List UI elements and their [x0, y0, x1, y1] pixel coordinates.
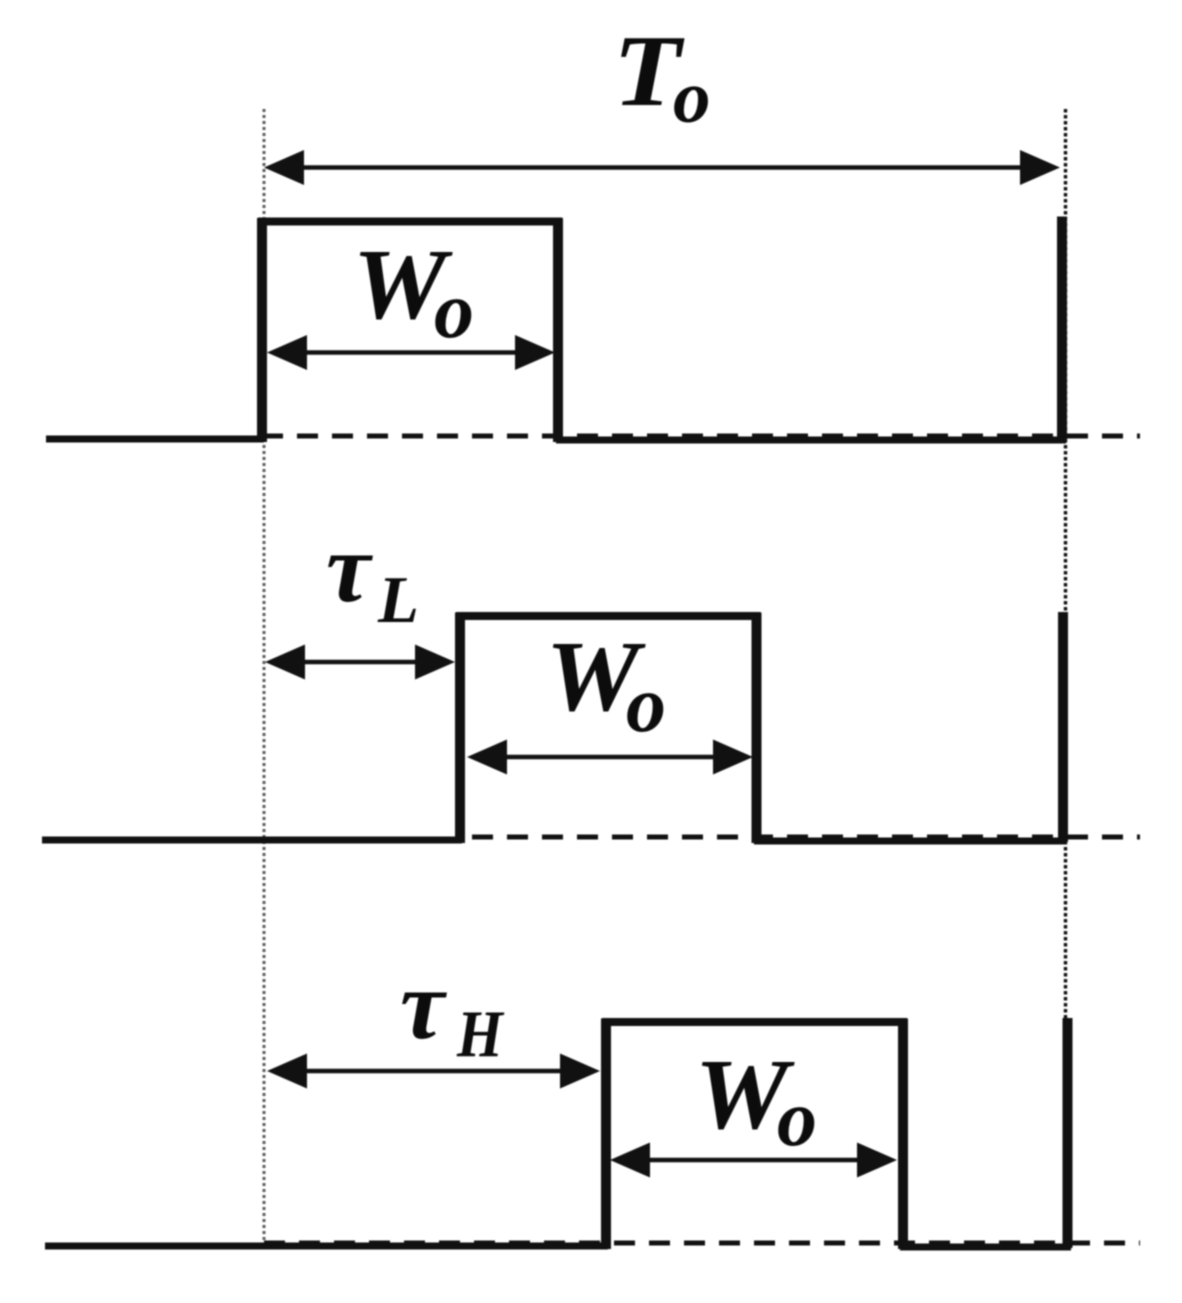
- waveform 1 next period rising edge: [1057, 217, 1067, 442]
- waveform 2 low wire after pulse: [754, 838, 1067, 845]
- dimension arrow Wo (waveform 1): [267, 335, 555, 370]
- waveform 2 next period rising edge: [1058, 612, 1068, 842]
- waveform 2 pulse outline: [456, 613, 761, 844]
- waveform 3 dashed baseline reference: [264, 1241, 1140, 1246]
- waveform 1 baseline wire (low before pulse): [46, 436, 264, 443]
- waveform 2 baseline wire (low before pulse): [42, 837, 462, 844]
- dimension arrow Wo (waveform 2): [467, 740, 753, 775]
- svg-text:o: o: [777, 1075, 817, 1163]
- svg-text:τ: τ: [326, 512, 373, 623]
- left dotted reference line at period start: [263, 109, 266, 1244]
- svg-text:L: L: [377, 563, 419, 637]
- waveform 1 pulse outline: [258, 218, 562, 442]
- right dotted reference line at period end: [1064, 109, 1067, 1248]
- waveform 3 low wire after pulse: [900, 1244, 1071, 1251]
- waveform 3 baseline wire (low before pulse): [45, 1243, 608, 1250]
- svg-text:H: H: [456, 997, 505, 1071]
- svg-text:o: o: [673, 56, 711, 139]
- waveform 3 next period rising edge: [1063, 1018, 1073, 1248]
- dimension arrow Wo (waveform 3): [610, 1143, 897, 1178]
- label Wo (waveform 3): [695, 1039, 817, 1163]
- dimension arrow To: [264, 150, 1060, 185]
- svg-text:τ: τ: [400, 949, 447, 1060]
- svg-text:o: o: [626, 661, 666, 749]
- waveform 2 dashed baseline reference: [472, 835, 1140, 840]
- label To: [613, 15, 710, 139]
- waveform 3 pulse outline: [602, 1019, 907, 1250]
- dimension arrow tau-H: [267, 1054, 600, 1089]
- label tau-H: [400, 949, 505, 1071]
- label tau-L: [326, 512, 419, 637]
- waveform 1 dashed baseline reference: [262, 434, 1140, 439]
- label Wo (waveform 2): [546, 621, 666, 749]
- dimension arrow tau-L: [265, 645, 455, 680]
- svg-text:o: o: [434, 267, 474, 355]
- waveform 1 low wire after pulse: [556, 437, 1066, 444]
- label Wo (waveform 1): [353, 229, 474, 355]
